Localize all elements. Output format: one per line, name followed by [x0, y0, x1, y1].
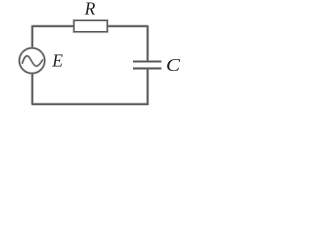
capacitor C bottom plate: [133, 67, 161, 69]
svg-text:R: R: [84, 0, 96, 19]
wire right upper (top-right corner down to capacitor): [147, 25, 149, 61]
wire top-left segment (source top to resistor): [32, 25, 75, 27]
AC source sine squiggle: [22, 56, 43, 66]
capacitor C top plate: [133, 61, 161, 63]
resistor R (box symbol): [74, 21, 107, 32]
svg-text:E: E: [51, 50, 63, 70]
wire left lower (bottom-left corner up to source): [31, 74, 33, 104]
wire bottom: [32, 103, 149, 105]
AC source E circle: [19, 48, 44, 73]
wire right lower (capacitor down to bottom-right corner): [147, 68, 149, 105]
soft underlay for wires: [19, 21, 161, 106]
wire left upper (source up to top-left corner): [31, 25, 33, 47]
svg-text:C: C: [166, 55, 181, 75]
wire top-right segment (resistor to top-right corner): [107, 25, 147, 27]
